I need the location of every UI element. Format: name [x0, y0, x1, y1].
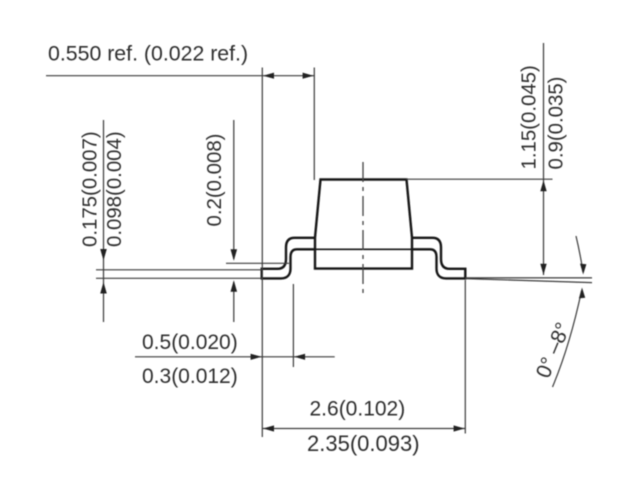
- right lead (gull wing): [412, 238, 465, 279]
- left lead (gull wing): [262, 238, 315, 279]
- svg-text:0.175(0.007): 0.175(0.007): [80, 131, 102, 247]
- svg-text:0.2(0.008): 0.2(0.008): [204, 134, 226, 227]
- package body outline: [315, 180, 412, 269]
- svg-text:0.5(0.020): 0.5(0.020): [142, 331, 238, 354]
- lead plane thin lines (left): [96, 270, 262, 279]
- dimension 0.5/0.3 texts: [142, 331, 238, 388]
- dimension 0.175/0.098 line and arrows: [103, 120, 105, 322]
- dimension 2.6/2.35 texts: [307, 398, 420, 457]
- dimension 1.15/0.9 texts (rotated): [519, 65, 568, 169]
- svg-text:2.6(0.102): 2.6(0.102): [310, 398, 406, 421]
- dimension 1.15/0.9 lines and arrows: [406, 43, 553, 275]
- dimension 0.2 lines and arrows: [226, 120, 289, 322]
- dimension 0.175/0.098 texts (rotated): [80, 131, 127, 247]
- svg-text:0.098(0.004): 0.098(0.004): [104, 131, 126, 247]
- centerline (dash-dot): [362, 162, 364, 298]
- angle 0-8 deg arc leaders and arrows: [553, 236, 584, 387]
- dimension 2.6/2.35 line and arrows: [262, 280, 465, 434]
- svg-text:0.550 ref. (0.022 ref.): 0.550 ref. (0.022 ref.): [48, 42, 248, 66]
- svg-text:0° –8°: 0° –8°: [532, 319, 575, 381]
- tilted foot line (right, 0-8 deg): [465, 279, 592, 283]
- svg-text:0.9(0.035): 0.9(0.035): [546, 77, 568, 170]
- svg-text:2.35(0.093): 2.35(0.093): [307, 431, 420, 456]
- dimension 0.550 ref text: [48, 42, 248, 66]
- angle 0-8 deg text (rotated): [532, 319, 575, 381]
- dimension 0.5/0.3 lines and arrows: [135, 284, 335, 367]
- seating plane line (right, horizontal): [465, 277, 592, 279]
- svg-text:0.3(0.012): 0.3(0.012): [142, 365, 238, 388]
- svg-text:1.15(0.045): 1.15(0.045): [519, 65, 541, 169]
- dimension 0.2 text (rotated): [204, 134, 226, 227]
- dimension 0.550 ref lines and arrows: [46, 68, 314, 438]
- lead frame line through body: [315, 248, 412, 250]
